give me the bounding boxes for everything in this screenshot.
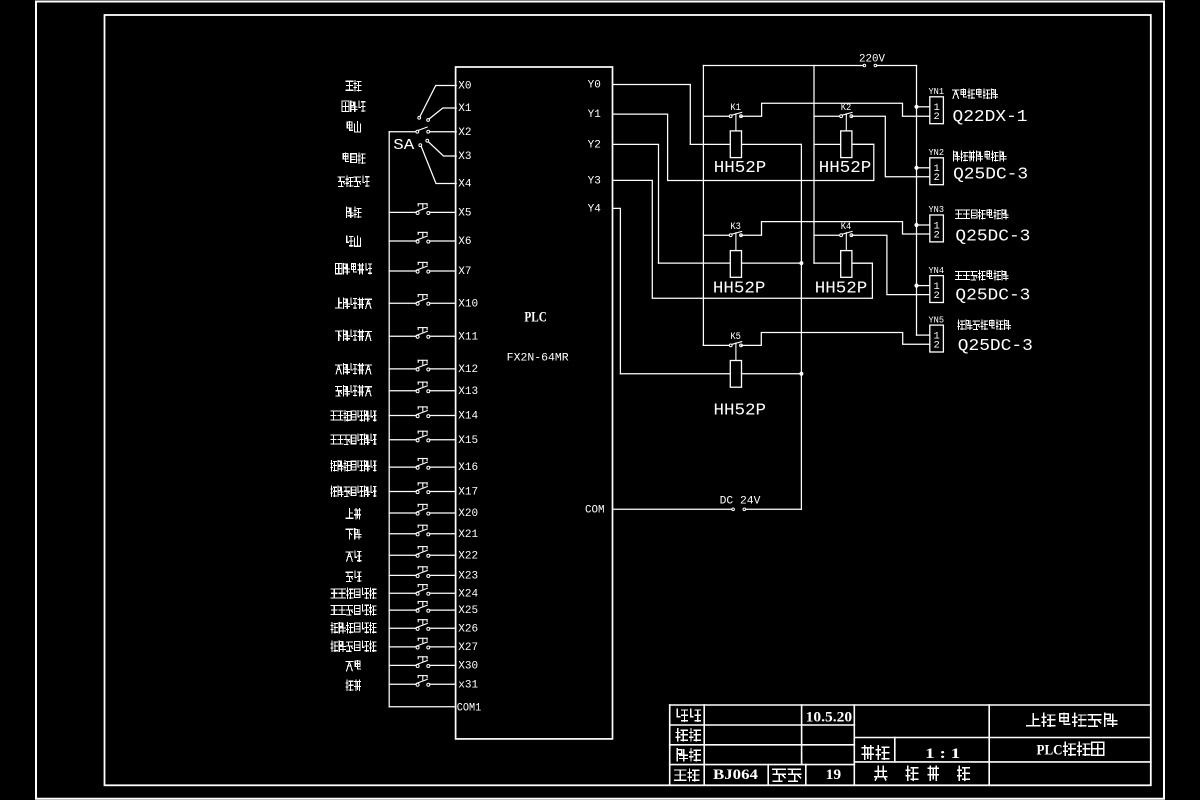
push button 回原点开始 -> X7 xyxy=(389,270,416,272)
svg-text:X22: X22 xyxy=(458,550,478,562)
coil return bus to DC24V xyxy=(800,144,802,509)
label 上限位开关 xyxy=(336,298,342,308)
svg-text:x31: x31 xyxy=(458,679,478,691)
push button 松开 -> x31 xyxy=(389,683,416,685)
label 共 张 第 张 xyxy=(875,766,887,780)
push button 左限位开关 -> X12 xyxy=(389,368,416,370)
svg-text:BJ064: BJ064 xyxy=(713,767,759,783)
label 厚梯升降电磁阀 xyxy=(954,151,960,161)
wire X2 xyxy=(430,131,457,133)
SA wiper arm xyxy=(419,127,428,130)
svg-text:X2: X2 xyxy=(458,127,471,139)
wire Y4 to K5 coil xyxy=(613,208,621,373)
svg-text:COM: COM xyxy=(585,505,605,517)
label 下降 xyxy=(346,529,353,539)
label 手臂逆时针限位 xyxy=(331,435,337,444)
wire K3 to YN3 xyxy=(741,222,930,236)
svg-text:HH52P: HH52P xyxy=(714,402,767,421)
pin1 stub YN3 xyxy=(917,224,930,226)
push button 手臂逆时针限位 -> X15 xyxy=(389,439,416,441)
wire DC24V to return bus xyxy=(746,508,802,510)
pin1 stub YN1 xyxy=(917,106,930,108)
220V bus B (K2 K4) xyxy=(813,66,815,264)
label 学号 xyxy=(773,769,785,781)
svg-text:Y0: Y0 xyxy=(588,80,601,92)
svg-text:X20: X20 xyxy=(458,508,478,520)
wire Y3 to K4 coil xyxy=(613,180,873,298)
svg-text:Y1: Y1 xyxy=(588,109,602,121)
svg-text:HH52P: HH52P xyxy=(819,159,872,178)
220V rail wire xyxy=(703,65,863,67)
label 回原位 xyxy=(342,101,349,111)
DC 24V switch terminals xyxy=(732,508,735,511)
label 手臂顺时针限位 xyxy=(331,411,337,420)
label 夹紧缸电磁阀 xyxy=(953,90,960,98)
label 设计 xyxy=(677,709,687,721)
relay coil K4 HH52P xyxy=(845,233,847,251)
wire K2 to YN2 xyxy=(852,116,930,177)
SA contact X3 xyxy=(426,139,429,142)
svg-text:X7: X7 xyxy=(458,266,471,278)
relay coil K5 HH52P xyxy=(735,343,737,361)
label 启动 xyxy=(347,207,353,217)
svg-text:HH52P: HH52P xyxy=(815,280,868,299)
svg-text:X11: X11 xyxy=(458,331,478,343)
svg-text:X1: X1 xyxy=(458,103,472,115)
wire COM xyxy=(613,508,732,510)
svg-text:X25: X25 xyxy=(458,605,478,617)
svg-text:2: 2 xyxy=(933,172,939,184)
220V bus A (K1 K3 K5) xyxy=(702,66,704,346)
title block xyxy=(670,704,1151,706)
SA pivot contact xyxy=(416,130,419,133)
SA contact X0 xyxy=(418,116,421,119)
svg-text:X26: X26 xyxy=(458,623,478,635)
svg-text:Q25DC-3: Q25DC-3 xyxy=(958,337,1033,356)
svg-text:YN5: YN5 xyxy=(929,315,945,325)
junction dots on return bus xyxy=(800,262,803,265)
svg-text:X6: X6 xyxy=(458,236,471,248)
label 手动 xyxy=(346,81,353,90)
svg-text:Q25DC-3: Q25DC-3 xyxy=(955,227,1030,246)
svg-text:X13: X13 xyxy=(458,386,478,398)
wire K1 to YN1 xyxy=(741,103,930,116)
push button 停止 -> X6 xyxy=(389,240,416,242)
PLC FX2N-64MR main box xyxy=(456,67,613,739)
label 停止 xyxy=(347,236,353,246)
wire X4 xyxy=(421,146,456,183)
svg-text:2: 2 xyxy=(933,290,939,302)
svg-text:220V: 220V xyxy=(859,54,885,66)
connector YN5 xyxy=(930,325,944,352)
label 右限位开关 xyxy=(336,387,342,396)
svg-text:K1: K1 xyxy=(730,103,741,114)
svg-text:2: 2 xyxy=(933,111,939,123)
svg-text:2: 2 xyxy=(933,229,939,241)
label 上升 xyxy=(346,509,353,519)
wire Y1 to K2 coil xyxy=(613,114,874,180)
label 校核 xyxy=(676,729,687,741)
label 手臂伸缩电磁阀 xyxy=(955,210,962,218)
svg-text:X12: X12 xyxy=(458,364,478,376)
svg-text:K3: K3 xyxy=(730,222,741,233)
wire K5 coil line xyxy=(620,373,801,375)
SA contact X4 xyxy=(419,144,422,147)
svg-text:Y3: Y3 xyxy=(588,176,601,188)
wire X3 xyxy=(428,142,456,156)
svg-text:2: 2 xyxy=(933,340,939,352)
wire K4 to YN4 xyxy=(852,235,930,294)
svg-text:X15: X15 xyxy=(458,435,478,447)
label 松开 xyxy=(346,680,353,690)
label 右行 xyxy=(346,572,353,581)
label 连续运行 xyxy=(338,177,345,186)
push button 下限位开关 -> X11 xyxy=(389,335,416,337)
svg-text:Q22DX-1: Q22DX-1 xyxy=(953,108,1028,127)
label 下限位开关 xyxy=(336,331,342,341)
relay coil K1 HH52P xyxy=(735,114,737,131)
bus to COM1 wire xyxy=(389,706,455,708)
svg-text:Y2: Y2 xyxy=(588,140,601,152)
label 审核 xyxy=(677,749,687,761)
push button 右限位开关 -> X13 xyxy=(389,390,416,392)
wire X1 xyxy=(429,108,456,119)
input common bus wire xyxy=(388,132,390,707)
svg-text:X27: X27 xyxy=(458,642,478,654)
220V right rail down xyxy=(916,66,918,336)
svg-text:X17: X17 xyxy=(458,487,478,499)
label 机座旋转电磁阀 xyxy=(958,320,965,330)
label 机座逆时针转 xyxy=(331,641,338,651)
svg-text:X24: X24 xyxy=(458,588,478,600)
svg-text:1 : 1: 1 : 1 xyxy=(925,746,960,762)
svg-text:X16: X16 xyxy=(458,462,478,474)
svg-text:K2: K2 xyxy=(841,103,852,114)
push button 手臂顺时针限位 -> X14 xyxy=(389,415,416,417)
label 机座顺时针转 xyxy=(331,622,338,632)
push button 夹紧 -> X30 xyxy=(389,664,416,666)
svg-text:X0: X0 xyxy=(458,81,471,93)
wire Y0 to K1 coil xyxy=(613,85,691,145)
svg-text:X3: X3 xyxy=(458,151,471,163)
relay coil K2 HH52P xyxy=(845,114,847,131)
label 单步 xyxy=(347,122,352,131)
SA contact X2 xyxy=(427,130,430,133)
push button 启动 -> X5 xyxy=(389,211,416,213)
svg-text:Y4: Y4 xyxy=(588,204,602,216)
label 比例 xyxy=(862,746,873,759)
push button 机座顺时针转 -> X26 xyxy=(389,627,416,629)
svg-text:YN4: YN4 xyxy=(929,266,945,276)
connector YN3 xyxy=(930,215,944,242)
push button 机座逆时针转 -> X27 xyxy=(389,646,416,648)
push button 手臂逆时针转 -> X25 xyxy=(389,609,416,611)
svg-text:K5: K5 xyxy=(730,332,741,343)
connector YN1 xyxy=(930,97,944,124)
svg-text:YN1: YN1 xyxy=(929,87,945,97)
label 班级 xyxy=(675,770,686,780)
svg-text:YN3: YN3 xyxy=(929,205,945,215)
pin1 stub YN4 xyxy=(917,285,930,287)
svg-text:Q25DC-3: Q25DC-3 xyxy=(953,165,1028,184)
220V switch terminals xyxy=(863,64,866,67)
svg-text:DC 24V: DC 24V xyxy=(720,496,761,508)
push button 上限位开关 -> X10 xyxy=(389,302,416,304)
svg-text:X14: X14 xyxy=(458,411,478,423)
svg-text:YN2: YN2 xyxy=(929,148,945,158)
push button 左行 -> X22 xyxy=(389,554,416,556)
wire K1 coil line xyxy=(690,143,801,145)
wire K4 coil line xyxy=(814,262,872,264)
svg-text:HH52P: HH52P xyxy=(713,280,766,299)
wire K2 coil line xyxy=(814,143,874,145)
label 手臂逆时针转 xyxy=(331,605,338,614)
SA contact X1 xyxy=(427,119,430,122)
svg-text:X10: X10 xyxy=(458,298,478,310)
label 左限位开关 xyxy=(336,365,342,374)
relay coil K3 HH52P xyxy=(735,233,737,251)
push button 机座顺时针限位 -> X16 xyxy=(389,466,416,468)
push button 下降 -> X21 xyxy=(389,533,416,535)
label 手臂旋转电磁阀 xyxy=(955,271,962,279)
label 夹紧 xyxy=(346,662,353,671)
svg-text:PLC: PLC xyxy=(1037,743,1063,759)
svg-text:X30: X30 xyxy=(458,661,478,673)
svg-text:X21: X21 xyxy=(458,529,478,541)
connector YN4 xyxy=(930,276,944,303)
svg-text:X23: X23 xyxy=(458,571,478,583)
wire X0 xyxy=(420,86,456,117)
svg-text:X5: X5 xyxy=(458,208,471,220)
svg-text:COM1: COM1 xyxy=(457,702,482,714)
push button 上升 -> X20 xyxy=(389,512,416,514)
svg-text:K4: K4 xyxy=(841,222,852,233)
connector YN2 xyxy=(930,158,944,185)
push button 手臂顺时针转 -> X24 xyxy=(389,592,416,594)
wire K3 coil line xyxy=(659,262,802,264)
wire K5 to YN5 xyxy=(741,333,930,346)
svg-text:Q25DC-3: Q25DC-3 xyxy=(955,286,1030,305)
label 回原点开始 xyxy=(336,263,342,273)
label 机座逆时针限位 xyxy=(331,486,337,496)
svg-text:10.5.20: 10.5.20 xyxy=(806,710,852,726)
svg-text:X4: X4 xyxy=(458,179,472,191)
pin1 stub YN2 xyxy=(917,167,930,169)
svg-text:19: 19 xyxy=(826,767,842,783)
label 机座顺时针限位 xyxy=(331,460,337,470)
label 手臂顺时针转 xyxy=(331,589,338,598)
push button 右行 -> X23 xyxy=(389,574,416,576)
pin1 stub YN5 xyxy=(917,334,930,336)
wire Y2 to K3 coil xyxy=(613,144,659,263)
label 左行 xyxy=(346,552,353,561)
SA common wire xyxy=(389,131,416,133)
label 上海电机学院 xyxy=(1027,714,1040,726)
svg-text:FX2N-64MR: FX2N-64MR xyxy=(507,353,569,365)
svg-text:SA: SA xyxy=(393,137,414,154)
svg-text:PLC: PLC xyxy=(524,310,547,326)
push button 机座逆时针限位 -> X17 xyxy=(389,491,416,493)
label 单周期 xyxy=(343,153,348,162)
svg-text:HH52P: HH52P xyxy=(714,159,767,178)
